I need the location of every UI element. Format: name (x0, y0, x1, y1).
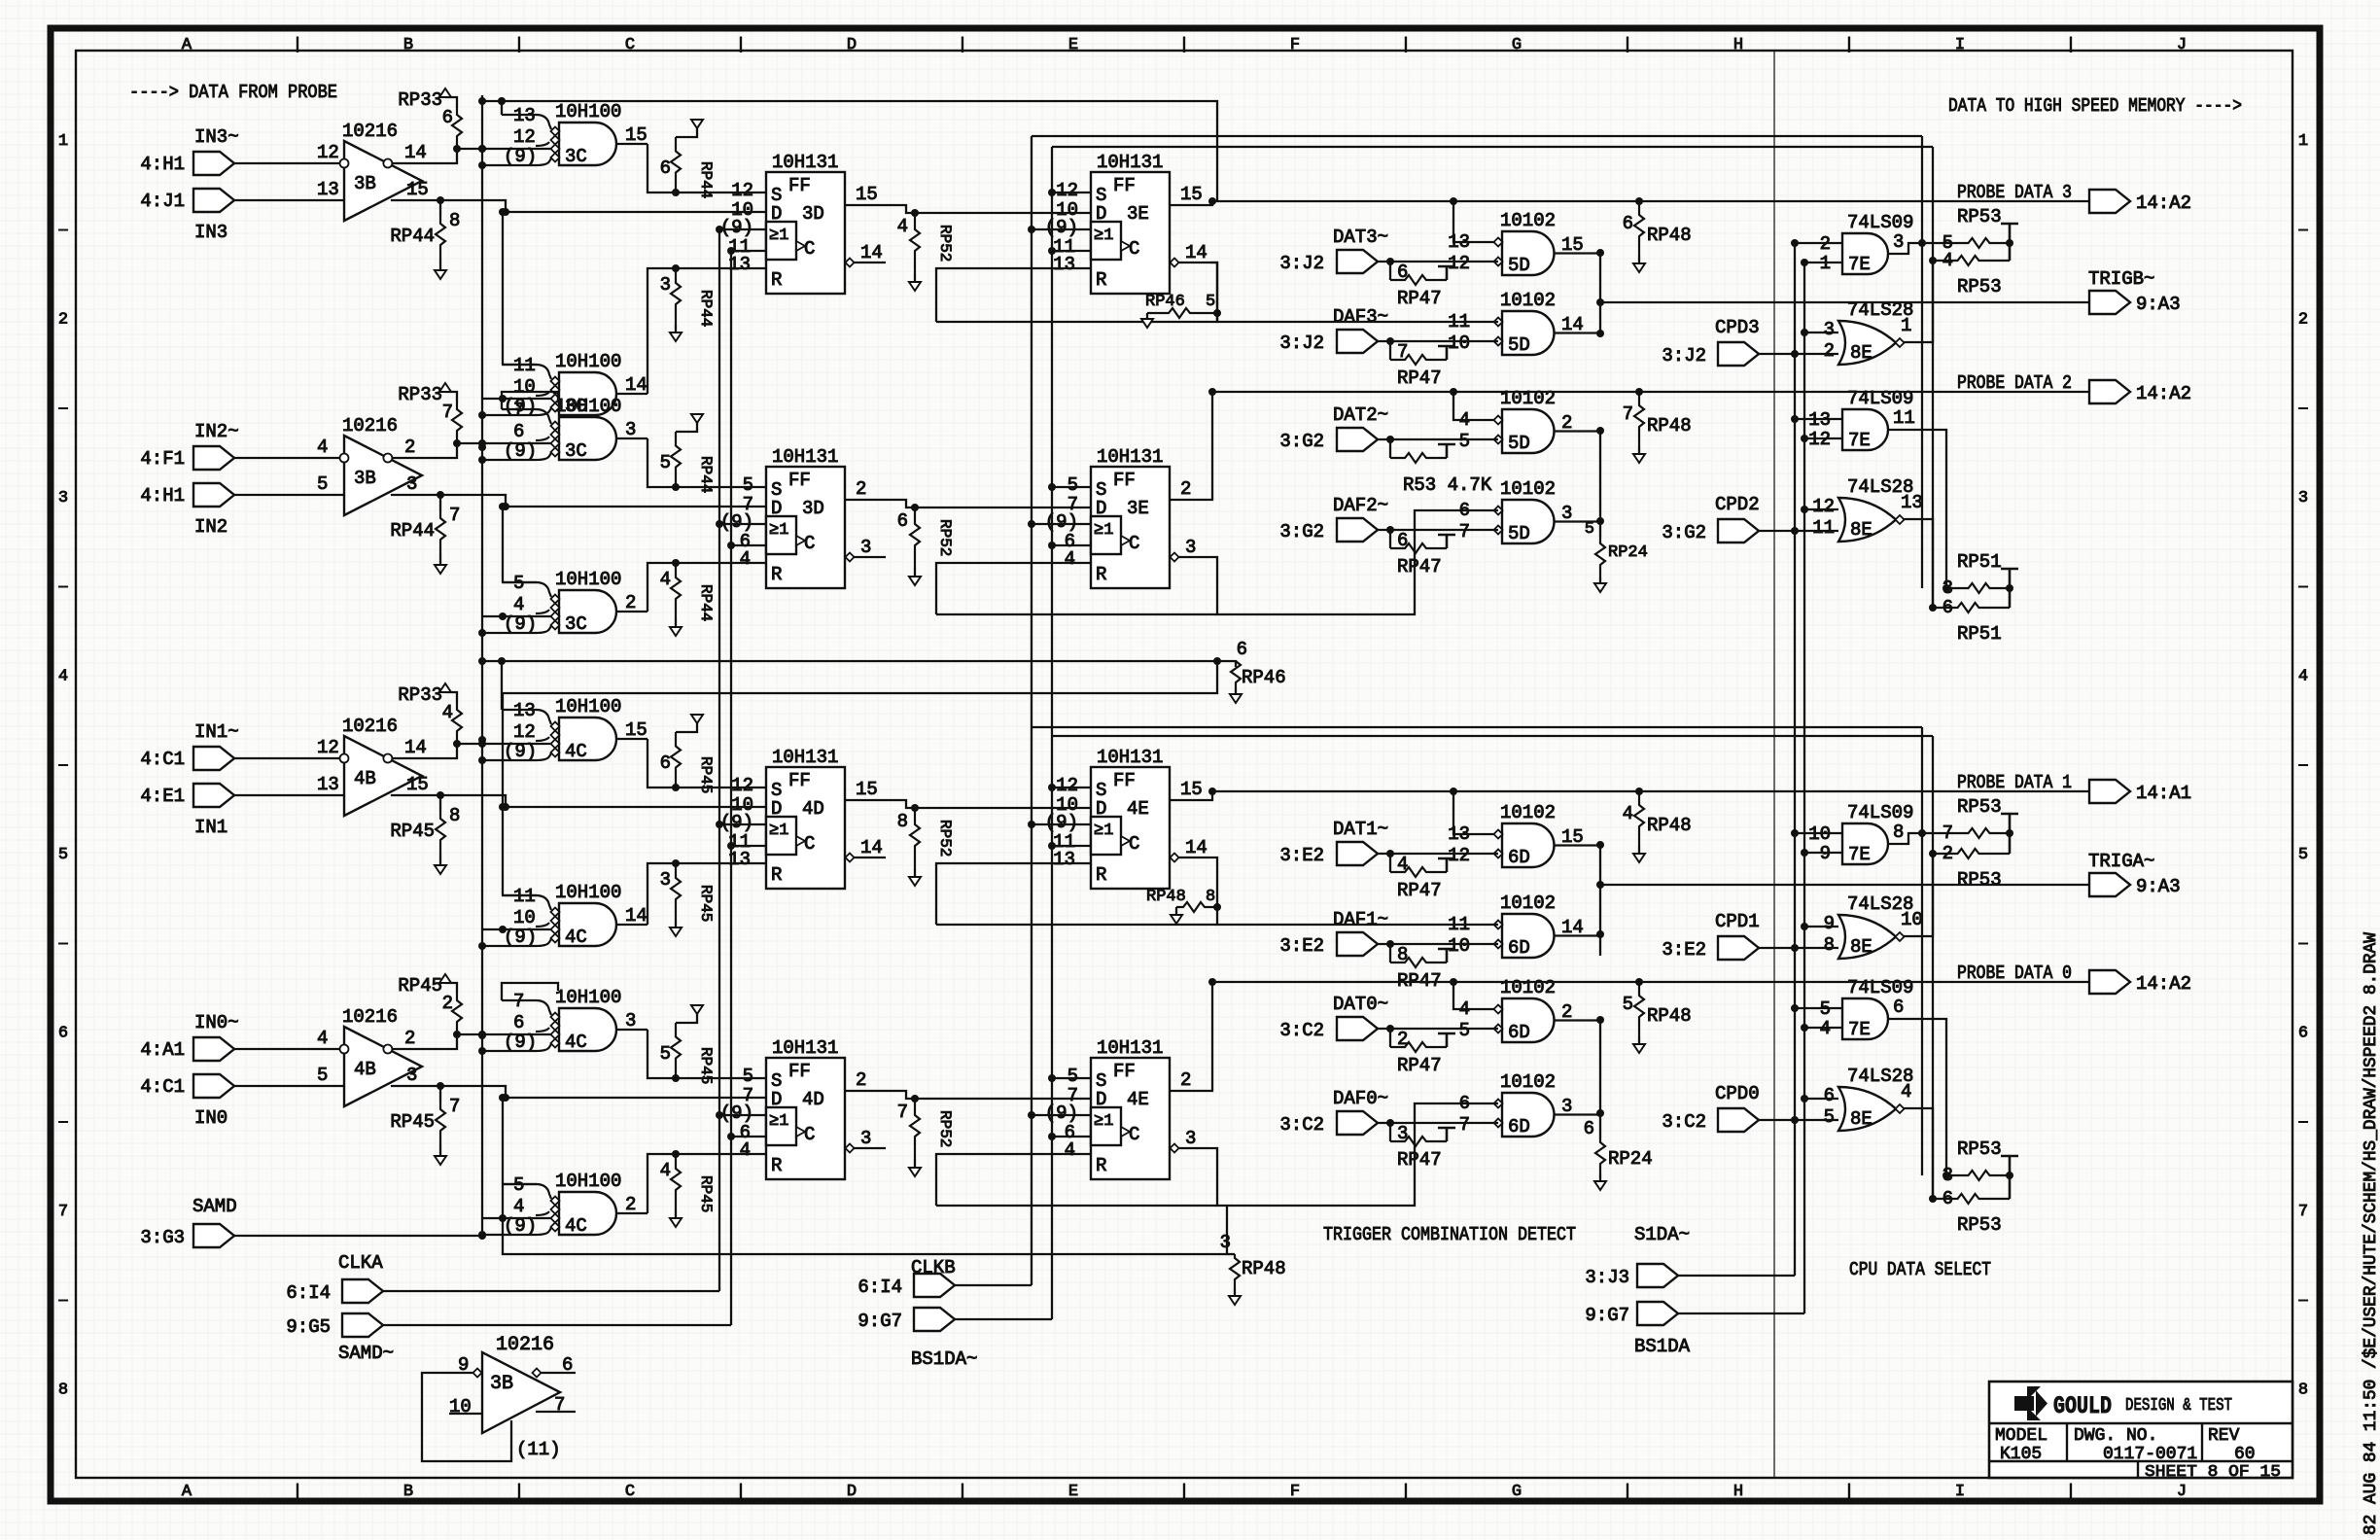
svg-text:6D: 6D (1508, 937, 1530, 959)
junction (478, 145, 486, 153)
svg-text:5: 5 (1206, 293, 1215, 311)
wire FF2 11 stub (1052, 1136, 1091, 1137)
gate 10H100 3C lower (pins 5/4) (482, 569, 647, 635)
svg-text:3: 3 (58, 489, 68, 507)
junction (1929, 850, 1937, 857)
svg-text:6: 6 (513, 421, 524, 442)
svg-text:≥1: ≥1 (769, 822, 788, 840)
svg-text:8: 8 (2298, 1382, 2308, 1400)
svg-text:82 AUG 84 11:50 /$E/USER/HUTE/: 82 AUG 84 11:50 /$E/USER/HUTE/SCHEM/HS_D… (2362, 932, 2380, 1535)
legend data from probe (129, 82, 337, 103)
wire BS1DA vert (1803, 262, 1805, 1313)
title block (1989, 1382, 2292, 1482)
wire lower gate out to FF R (647, 268, 766, 394)
svg-text:2: 2 (856, 478, 866, 500)
svg-text:IN0: IN0 (194, 1107, 227, 1129)
svg-text:3:E2: 3:E2 (1279, 845, 1324, 866)
output port 9:A3 (TRIGB~) (2089, 291, 2181, 315)
junction (499, 1094, 507, 1102)
svg-text:DATA TO HIGH SPEED MEMORY ----: DATA TO HIGH SPEED MEMORY ----> (1948, 95, 2242, 117)
junction (499, 612, 507, 620)
wire 10102 OR bus ch0 (1599, 1020, 1601, 1113)
svg-text:FF: FF (788, 1061, 811, 1082)
svg-text:4: 4 (317, 437, 328, 458)
net label IN3 (194, 222, 227, 243)
svg-text:7: 7 (1623, 403, 1633, 425)
junction (1208, 197, 1216, 205)
junction (727, 542, 735, 549)
wire FF2 R stub (1072, 1153, 1091, 1155)
svg-text:—: — (57, 757, 68, 774)
svg-text:SHEET 8 OF 15: SHEET 8 OF 15 (2145, 1463, 2281, 1482)
wire FF2 S feed ch3 (1052, 192, 1091, 193)
svg-text:IN3: IN3 (194, 222, 227, 243)
wire FF1 Q to FF2 D (845, 1091, 1091, 1099)
resistor RP45 (pull) (390, 1086, 460, 1165)
svg-text:IN2: IN2 (194, 516, 227, 538)
wire FF2 (9) stub (1032, 228, 1091, 230)
resistor pair RP53 (1933, 206, 2018, 297)
svg-text:3: 3 (406, 1065, 417, 1086)
svg-text:7E: 7E (1848, 1019, 1871, 1040)
wire FF2 S feed ch1 (1052, 787, 1091, 788)
svg-text:RP52: RP52 (936, 225, 954, 262)
junction (437, 1082, 444, 1090)
svg-text:CPD1: CPD1 (1715, 911, 1760, 932)
wire FF2 ch3 /Q down (1210, 262, 1217, 322)
svg-text:(9): (9) (504, 146, 537, 167)
wire FF1 Q to FF2 D (845, 800, 1091, 808)
svg-text:10102: 10102 (1500, 290, 1556, 311)
svg-text:CPU DATA SELECT: CPU DATA SELECT (1849, 1259, 1991, 1280)
svg-text:3C: 3C (565, 440, 587, 462)
junction (1596, 841, 1604, 849)
svg-text:5D: 5D (1508, 433, 1530, 454)
svg-text:RP51: RP51 (1957, 623, 2002, 645)
svg-text:J: J (2177, 1483, 2187, 1501)
input port 3:G3 (SAMD) (140, 1224, 234, 1248)
svg-text:4:C1: 4:C1 (140, 1076, 185, 1098)
svg-text:3:G2: 3:G2 (1279, 521, 1324, 542)
svg-text:3:G2: 3:G2 (1662, 522, 1706, 543)
svg-text:F: F (1290, 36, 1300, 54)
net label IN1~ (194, 721, 239, 743)
wire lower gate pin hook (503, 581, 537, 583)
svg-text:3: 3 (1185, 537, 1196, 558)
svg-text:5D: 5D (1508, 255, 1530, 276)
svg-text:RP53: RP53 (1957, 276, 2002, 297)
resistor RP47 (pin 8) (1390, 944, 1455, 992)
svg-text:3:E2: 3:E2 (1662, 939, 1706, 961)
svg-text:4: 4 (2298, 668, 2308, 686)
net label IN2~ (194, 421, 239, 442)
wire 7E input b (1804, 262, 1842, 263)
svg-text:12: 12 (1056, 775, 1078, 796)
svg-text:2: 2 (1180, 478, 1191, 500)
svg-text:|: | (958, 36, 967, 54)
net label CPD2 (1715, 494, 1760, 515)
svg-text:R: R (1096, 269, 1106, 291)
svg-text:RP45: RP45 (697, 1047, 715, 1084)
svg-text:6:I4: 6:I4 (286, 1282, 331, 1304)
svg-text:3E: 3E (1127, 498, 1149, 519)
svg-text:7: 7 (58, 1203, 68, 1221)
svg-text:DAT2~: DAT2~ (1333, 404, 1388, 426)
svg-text:≥1: ≥1 (1094, 822, 1113, 840)
svg-text:RP53: RP53 (1957, 1214, 2002, 1236)
svg-text:4: 4 (58, 668, 68, 686)
resistor RP48 (pin 3) (1220, 1232, 1286, 1305)
svg-text:RP52: RP52 (936, 1110, 954, 1147)
svg-text:(11): (11) (516, 1439, 561, 1460)
svg-text:2: 2 (58, 311, 68, 330)
resistor RP47 (pin 6) (1390, 262, 1455, 309)
svg-text:7E: 7E (1848, 844, 1871, 865)
svg-text:14:A2: 14:A2 (2136, 383, 2191, 404)
input port 9:G5 (SAMD~) (286, 1313, 383, 1338)
svg-text:RP53: RP53 (1957, 206, 2002, 227)
wire probe to DAT gate (1453, 791, 1498, 834)
svg-text:10H131: 10H131 (772, 152, 838, 173)
buffer 10216 3B (IN2) (317, 415, 422, 515)
svg-text:10H100: 10H100 (555, 882, 621, 903)
wire rail S1DA upper (1032, 135, 1922, 137)
junction (1791, 1004, 1799, 1012)
junction (1596, 249, 1604, 257)
svg-text:4E: 4E (1127, 798, 1149, 820)
svg-text:8: 8 (449, 805, 460, 826)
wire DAT3~ (1378, 261, 1498, 262)
wire rail ch3 upper (482, 101, 1217, 201)
wire FF2 R loop (936, 563, 1217, 614)
wire FF2 11 stub (1052, 250, 1091, 252)
svg-text:4D: 4D (802, 1089, 824, 1110)
svg-text:2: 2 (1180, 1069, 1191, 1091)
svg-text:RP24: RP24 (1608, 543, 1648, 562)
flip-flop 10H131 4E (1045, 747, 1210, 889)
net label DAT3~ (1333, 227, 1388, 248)
net label DAF1~ (1333, 909, 1388, 930)
junction (1048, 784, 1056, 791)
resistor RP46 (pin 6) (1230, 639, 1286, 703)
svg-text:7: 7 (897, 1102, 908, 1123)
svg-text:CLKA: CLKA (338, 1252, 383, 1274)
junction (1208, 787, 1216, 795)
svg-text:—: — (2297, 757, 2308, 774)
svg-text:3B: 3B (354, 173, 376, 194)
wire 4:J1 to buffer (234, 199, 344, 201)
svg-text:PROBE DATA 3: PROBE DATA 3 (1957, 182, 2072, 203)
output port 14:A2 (PROBE DATA 3) (2089, 190, 2191, 214)
svg-text:≥1: ≥1 (769, 521, 788, 540)
label trigger combination detect (1323, 1224, 1576, 1245)
svg-text:6: 6 (1237, 639, 1247, 660)
wire 7E input b (1804, 1027, 1842, 1029)
flip-flop 10H131 4D (720, 747, 886, 889)
junction (1450, 388, 1457, 396)
wire FF1 Q to FF2 D (845, 205, 1091, 213)
svg-text:4: 4 (1623, 803, 1633, 824)
svg-text:B: B (403, 36, 413, 54)
input port 4:E1 (IN1) (140, 784, 234, 807)
wire SAMD~ bus (730, 251, 732, 1325)
svg-text:RP44: RP44 (697, 584, 715, 621)
resistor RP52 (pin 6) (897, 507, 954, 585)
svg-text:74LS09: 74LS09 (1847, 212, 1913, 233)
label PROBE DATA 1 (1957, 772, 2072, 793)
svg-text:7: 7 (2298, 1203, 2308, 1221)
svg-text:R: R (1096, 564, 1106, 585)
resistor RP33 (pin 6) (398, 88, 462, 149)
svg-text:C: C (625, 1483, 635, 1501)
svg-text:—: — (2297, 1114, 2308, 1131)
wire lower gate out to FF R (647, 863, 766, 925)
svg-text:3C: 3C (565, 146, 587, 167)
junction (478, 1032, 486, 1039)
svg-text:|: | (514, 36, 524, 54)
svg-text:14: 14 (625, 905, 647, 927)
resistor RP47 (pin 3) (1390, 1123, 1455, 1171)
svg-text:(9): (9) (1045, 812, 1078, 833)
svg-text:IN3~: IN3~ (194, 126, 239, 148)
junction (911, 209, 919, 217)
plot stamp rotated (2362, 932, 2380, 1535)
resistor RP52 (pin 8) (897, 808, 954, 886)
junction (1929, 604, 1937, 612)
svg-text:4:E1: 4:E1 (140, 786, 185, 807)
input port 3:J2 (DAT3~) (1279, 250, 1378, 274)
svg-text:3:J2: 3:J2 (1279, 253, 1324, 274)
svg-text:14: 14 (404, 142, 427, 163)
wire 7E out (1887, 833, 1954, 844)
junction (716, 520, 723, 528)
input port 3:J2 (DAF3~) (1279, 330, 1378, 354)
svg-text:|: | (293, 36, 302, 54)
svg-text:C: C (1129, 238, 1139, 260)
input port 4:C1 (IN1~) (140, 747, 234, 770)
net label DAF0~ (1333, 1088, 1388, 1109)
junction (478, 456, 486, 464)
svg-text:RP53: RP53 (1957, 796, 2002, 818)
svg-text:D: D (1096, 798, 1106, 820)
svg-text:5: 5 (1067, 474, 1078, 496)
wire FF2 R loop (936, 1154, 1217, 1206)
wire CPD3 (1759, 353, 1838, 355)
svg-text:A: A (182, 1483, 192, 1501)
wire trigger sample net (503, 1184, 1227, 1254)
svg-text:—: — (57, 1114, 68, 1131)
svg-text:10H100: 10H100 (555, 696, 621, 717)
svg-text:6D: 6D (1508, 1022, 1530, 1043)
svg-text:5: 5 (1623, 994, 1633, 1015)
junction (478, 942, 486, 950)
svg-text:2: 2 (856, 1069, 866, 1091)
svg-text:|: | (1179, 1483, 1189, 1501)
svg-text:RP45: RP45 (398, 975, 442, 997)
wire gate out to FF S (647, 438, 766, 487)
gate 10H100 3C upper (pins 13/12) (482, 101, 647, 167)
wire gate out to FF S (647, 144, 766, 192)
svg-text:RP44: RP44 (697, 290, 715, 327)
wire 4:E1 to buffer (234, 794, 344, 796)
svg-text:60: 60 (2234, 1445, 2256, 1464)
svg-text:5: 5 (1459, 1020, 1470, 1041)
svg-text:DAT1~: DAT1~ (1333, 819, 1388, 840)
junction (478, 629, 486, 637)
resistor RP48 (pin 7) (1623, 392, 1692, 463)
wire lower gate out to FF R (647, 563, 766, 612)
junction (1596, 930, 1604, 938)
svg-text:10H131: 10H131 (1097, 1037, 1163, 1059)
gate 10102 6D (DAF0~) (1459, 1071, 1600, 1137)
svg-text:4:H1: 4:H1 (140, 154, 185, 175)
svg-text:10102: 10102 (1500, 210, 1556, 231)
svg-text:4B: 4B (354, 768, 376, 789)
junction (1386, 337, 1394, 345)
svg-text:D: D (771, 203, 782, 225)
svg-text:2: 2 (2298, 311, 2308, 330)
wire rail ch1 upper (482, 661, 1236, 667)
flip-flop 10H131 3E (1045, 446, 1210, 588)
svg-text:6: 6 (2298, 1025, 2308, 1043)
svg-text:3: 3 (625, 1010, 636, 1032)
resistor RP48 (pin 4) (1623, 791, 1692, 862)
svg-text:IN2~: IN2~ (194, 421, 239, 442)
svg-text:6: 6 (1397, 262, 1408, 283)
svg-text:10102: 10102 (1500, 892, 1556, 914)
svg-text:I: I (1955, 1483, 1965, 1501)
svg-text:15: 15 (625, 124, 647, 146)
wire buffer out 2 (393, 443, 551, 458)
wire 7E input a (1795, 242, 1842, 244)
svg-text:DAF0~: DAF0~ (1333, 1088, 1388, 1109)
svg-text:D: D (1096, 203, 1106, 225)
junction (1386, 850, 1394, 857)
svg-text:5D: 5D (1508, 523, 1530, 544)
gate 10102 5D (DAF3~) (1448, 290, 1600, 356)
gate 10H100 4C lower (pins 11/10) (482, 882, 647, 948)
svg-text:2: 2 (1397, 1029, 1408, 1050)
svg-text:3C: 3C (565, 613, 587, 635)
svg-text:10H131: 10H131 (1097, 446, 1163, 468)
svg-text:|: | (1179, 36, 1189, 54)
junction (1213, 657, 1221, 665)
svg-text:DAT3~: DAT3~ (1333, 227, 1388, 248)
wire 4:H1 to buffer (234, 494, 344, 496)
wire FF2 11 stub (1052, 544, 1091, 546)
wire SAMD~ (383, 1324, 731, 1326)
svg-text:RP44: RP44 (697, 161, 715, 198)
resistor RP52 (pin 4) (897, 213, 954, 291)
svg-text:4:H1: 4:H1 (140, 485, 185, 507)
svg-text:6: 6 (1893, 997, 1904, 1018)
svg-text:4: 4 (1065, 1139, 1075, 1161)
wire DAF2~ (1378, 529, 1498, 531)
wire 8E out (1904, 1108, 1933, 1199)
wire FF2 R stub (1072, 267, 1091, 269)
svg-text:14:A2: 14:A2 (2136, 192, 2191, 214)
svg-text:R: R (1096, 864, 1106, 886)
svg-text:12: 12 (513, 126, 536, 148)
svg-text:REV: REV (2208, 1426, 2240, 1446)
wire lower gate pin hook (503, 894, 537, 896)
junction (727, 842, 735, 850)
junction (1635, 978, 1643, 986)
resistor RP46 (pin 5) (1141, 293, 1221, 328)
junction (453, 1031, 461, 1038)
junction (1801, 435, 1808, 442)
wire pin 13 strobe (501, 101, 503, 115)
wire buffer out 3 (391, 1086, 766, 1098)
svg-text:6: 6 (513, 1012, 524, 1033)
resistor RP48 (pin 6) (1623, 201, 1692, 272)
svg-text:3:C2: 3:C2 (1279, 1114, 1324, 1136)
wire 4:H1 to buffer (234, 162, 344, 164)
svg-text:12: 12 (1448, 845, 1470, 866)
svg-text:3D: 3D (802, 498, 824, 519)
svg-text:RP33: RP33 (398, 684, 442, 706)
svg-text:J: J (2177, 36, 2187, 54)
svg-text:4: 4 (740, 548, 751, 570)
wire gate out to FF S (647, 1030, 766, 1078)
svg-text:RP48: RP48 (1647, 1005, 1692, 1027)
wire FF 11 input (731, 544, 766, 546)
svg-text:7: 7 (449, 1096, 460, 1117)
junction (1028, 821, 1035, 828)
svg-text:RP24: RP24 (1608, 1148, 1653, 1170)
svg-text:RP33: RP33 (398, 89, 442, 111)
wire D net to lower gate (502, 1098, 504, 1184)
svg-text:2: 2 (1824, 340, 1835, 362)
input port 6:I4 (CLKB) (857, 1274, 955, 1298)
junction (502, 208, 509, 216)
svg-text:7: 7 (449, 505, 460, 526)
junction (499, 803, 507, 811)
wire pin 7 box (502, 983, 558, 1000)
svg-text:F: F (1290, 1483, 1300, 1501)
svg-text:4C: 4C (565, 927, 587, 948)
svg-text:10: 10 (1448, 935, 1470, 957)
junction (1386, 436, 1394, 443)
svg-text:7: 7 (1942, 822, 1953, 844)
nor gate 74LS28 8E (10) (1824, 893, 1923, 959)
svg-text:≥1: ≥1 (1094, 521, 1113, 540)
svg-text:2: 2 (404, 437, 415, 458)
input port 4:H1 (IN3~) (140, 152, 234, 175)
svg-text:≥1: ≥1 (1094, 227, 1113, 245)
wire gate out to FF S (647, 739, 766, 787)
svg-text:DAF1~: DAF1~ (1333, 909, 1388, 930)
gate 10H100 4C lower (pins 5/4) (482, 1171, 647, 1237)
svg-text:10H100: 10H100 (555, 351, 621, 372)
junction (478, 740, 486, 748)
svg-text:IN1: IN1 (194, 817, 227, 838)
svg-text:6: 6 (1584, 1118, 1594, 1139)
and gate 74LS09 7E (6) (1820, 977, 1914, 1040)
svg-text:13: 13 (1448, 231, 1470, 253)
junction (1048, 842, 1056, 850)
svg-text:2: 2 (404, 1028, 415, 1049)
junction (478, 1231, 486, 1239)
junction (1028, 520, 1035, 528)
svg-text:10H131: 10H131 (1097, 152, 1163, 173)
junction (1048, 1133, 1056, 1140)
wire lower gate main feed (482, 615, 551, 617)
resistor RP44 (pin 4) (660, 563, 715, 636)
wire DAF3~ (1378, 340, 1498, 342)
resistor R53 4.7K (1390, 439, 1492, 496)
svg-text:4: 4 (1459, 998, 1470, 1020)
